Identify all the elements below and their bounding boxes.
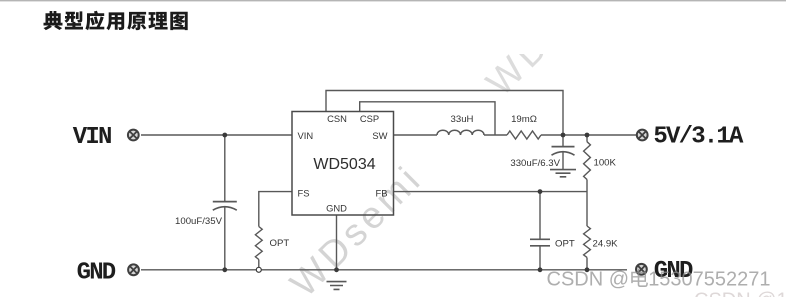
svg-text:15307552271: 15307552271 bbox=[648, 269, 770, 291]
svg-text:GND: GND bbox=[326, 203, 347, 214]
svg-text:FB: FB bbox=[376, 188, 388, 199]
svg-text:CSDN @15307552271: CSDN @15307552271 bbox=[694, 290, 786, 297]
svg-text:VIN: VIN bbox=[298, 130, 314, 141]
svg-text:CSN: CSN bbox=[327, 113, 347, 124]
svg-text:19mΩ: 19mΩ bbox=[511, 114, 537, 125]
svg-text:33uH: 33uH bbox=[451, 114, 474, 125]
svg-text:OPT: OPT bbox=[555, 239, 575, 250]
svg-text:SW: SW bbox=[372, 130, 387, 141]
svg-text:FS: FS bbox=[298, 188, 310, 199]
svg-text:330uF/6.3V: 330uF/6.3V bbox=[510, 158, 560, 169]
svg-text:100uF/35V: 100uF/35V bbox=[175, 216, 223, 227]
svg-text:CSP: CSP bbox=[360, 113, 379, 124]
svg-text:100K: 100K bbox=[594, 158, 617, 169]
svg-text:CSDN @: CSDN @ bbox=[547, 269, 630, 291]
svg-text:OPT: OPT bbox=[270, 238, 290, 249]
svg-text:5V/3.1A: 5V/3.1A bbox=[653, 123, 744, 150]
svg-text:24.9K: 24.9K bbox=[593, 238, 619, 249]
svg-text:VIN: VIN bbox=[73, 124, 111, 151]
svg-text:WD5034: WD5034 bbox=[313, 156, 375, 173]
svg-text:GND: GND bbox=[77, 260, 116, 287]
